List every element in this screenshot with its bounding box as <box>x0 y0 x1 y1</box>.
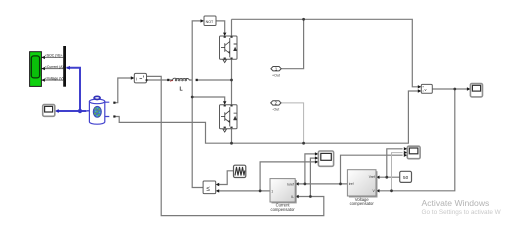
svg-text:compensator: compensator <box>350 201 375 206</box>
svg-text:compensator: compensator <box>270 207 295 212</box>
svg-text:<SOC (%)>: <SOC (%)> <box>45 54 63 58</box>
svg-text:Iuref: Iuref <box>287 183 294 187</box>
svg-text:v: v <box>425 87 427 92</box>
svg-text:Vref: Vref <box>369 175 375 179</box>
svg-text:<Voltage (V)>: <Voltage (V)> <box>45 76 66 80</box>
svg-text:IL: IL <box>291 195 294 199</box>
svg-text:Activate Windows: Activate Windows <box>422 198 490 208</box>
svg-text:<Current (A)>: <Current (A)> <box>45 65 66 69</box>
svg-text:iref: iref <box>349 182 354 186</box>
svg-text:i: i <box>136 77 137 82</box>
svg-text:NOT: NOT <box>206 20 214 24</box>
svg-text:≤: ≤ <box>206 186 210 193</box>
svg-text:-Out: -Out <box>272 108 279 112</box>
svg-text:+Out: +Out <box>272 73 280 77</box>
svg-text:Go to Settings to activate W: Go to Settings to activate W <box>422 209 502 216</box>
svg-text:1: 1 <box>271 189 273 193</box>
svg-text:50: 50 <box>403 175 409 180</box>
